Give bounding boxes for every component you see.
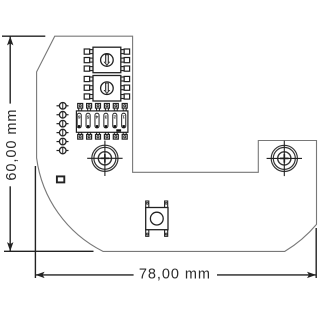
svg-text:3: 3 (104, 114, 107, 119)
mounting hole H1 (left) (87, 141, 122, 176)
svg-text:78,00 mm: 78,00 mm (139, 266, 211, 282)
extension line top (2, 35, 45, 37)
arrowhead right (307, 272, 316, 278)
arrowhead down (7, 242, 13, 251)
arrowhead left (36, 272, 45, 278)
svg-text:1: 1 (122, 114, 125, 119)
dimension line (two segments) (9, 36, 11, 103)
svg-text:2: 2 (113, 114, 116, 119)
fiducial square (57, 176, 64, 182)
svg-text:6: 6 (77, 114, 80, 119)
extension line left (34, 166, 36, 278)
dimension 60,00 mm (vertical, left) (2, 36, 94, 251)
svg-text:5: 5 (86, 114, 89, 119)
board outline (37, 36, 317, 251)
mounting hole H2 (right) (267, 141, 302, 176)
extension line right (315, 228, 317, 278)
pad row J1 (6 through-hole pads) (57, 103, 69, 154)
trimmer potentiometer P1 (84, 47, 129, 72)
arrowhead up (7, 36, 13, 45)
extension line bottom (4, 250, 94, 252)
svg-text:60,00 mm: 60,00 mm (4, 109, 20, 181)
DIP switch S1 (76, 104, 128, 140)
svg-text:4: 4 (95, 114, 98, 119)
trimmer potentiometer P2 (84, 76, 129, 102)
dimension 78,00 mm (horizontal, bottom) (35, 166, 316, 278)
dimension line (two segments) (35, 274, 133, 276)
push button SW1 (146, 201, 168, 236)
